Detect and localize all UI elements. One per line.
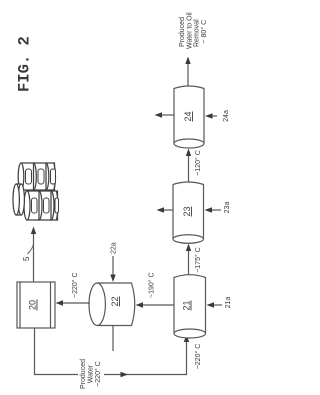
svg-text:24: 24 [183,111,193,121]
svg-text:23: 23 [182,206,192,216]
arrowhead into 23 bottom [205,207,213,212]
svg-text:Water to Oil: Water to Oil [186,12,193,49]
svg-text:22: 22 [110,296,120,306]
plain top drum [13,184,24,215]
svg-text:Produced: Produced [80,359,87,389]
svg-text:Removal: Removal [194,19,201,47]
feed 24a wire [210,115,217,117]
svg-text:20: 20 [28,300,38,310]
svg-text:Water: Water [88,364,95,383]
arrowhead vent 23 [157,207,165,212]
svg-text:~190° C: ~190° C [148,272,156,298]
wire 23 to 24 [188,153,190,182]
left stack drum L2 [36,191,51,220]
svg-text:22a: 22a [111,242,118,254]
feed 22a wire [112,256,114,276]
svg-text:~120° C: ~120° C [194,150,202,176]
arrowhead into 21 bottom [207,302,215,307]
right stack drum R3 [43,163,55,190]
arrowhead outlet [185,57,190,65]
svg-text:24a: 24a [223,110,230,122]
arrowhead into 20 bottom [56,300,64,305]
vessel 22 [89,283,135,326]
svg-text:23a: 23a [224,202,231,214]
arrowhead vent 24 [155,112,163,117]
produced water inlet label [80,359,102,389]
svg-text:5: 5 [22,256,31,261]
arrowhead down on produced water line [121,372,129,377]
svg-text:21: 21 [182,300,192,310]
left stack drum L1 [24,191,39,220]
svg-text:~220° C: ~220° C [194,344,202,370]
arrowhead into 23 [186,244,191,252]
arrowhead into 22 right side [110,275,115,283]
svg-text:~220° C: ~220° C [71,272,79,298]
arrowhead into 22 bottom [136,302,144,307]
left stack drum L3 [48,191,59,220]
feed 21a wire [212,304,222,306]
separator bank 5 (cluster of drums) [13,163,59,220]
svg-text:Produced: Produced [179,17,186,47]
leader line for label 5 [28,244,34,254]
outlet wire from 24 [187,62,189,86]
wire 21 to 22 [141,304,174,306]
stub wire from 22 left [112,325,114,351]
outlet label: Produced Water to Oil Removal ~80 C [179,12,208,49]
vent wire from 24 top [160,114,174,116]
wire 21 to 23 [188,248,190,275]
svg-text:~220° C: ~220° C [94,361,102,387]
svg-text:FIG. 2: FIG. 2 [16,36,34,92]
vessel 23 [173,182,204,243]
svg-text:~175° C: ~175° C [194,247,202,273]
wire continuing down to vessel 21 [104,341,187,375]
vessel 21 [174,275,206,338]
arrowhead into 24 bottom [205,113,213,118]
arrowhead into vessel 21 [184,335,189,343]
vessel 24 [174,86,204,148]
wire 20 to separator bank [33,232,35,281]
right stack drum R2 [31,163,46,190]
svg-text:21a: 21a [225,297,232,309]
vent wire from 23 top [162,209,173,211]
arrowhead into bank 5 [31,227,36,235]
produced water inlet wire from 20 left going down [35,328,79,375]
wire 22 to 20 [61,302,90,304]
heat exchanger 20 [17,282,55,328]
arrowhead into 24 [186,149,191,157]
svg-text:~ 80° C: ~ 80° C [200,20,208,44]
feed 23a wire [210,209,221,211]
right stack drum R1 [18,163,33,190]
